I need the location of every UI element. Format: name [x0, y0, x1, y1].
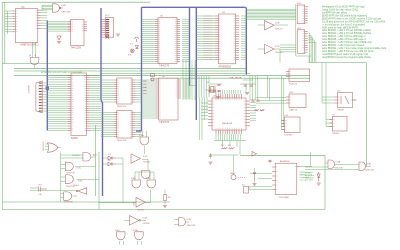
gate GC: [65, 175, 73, 183]
dome pair mid: [132, 180, 141, 188]
svg-text:74AC74: 74AC74: [289, 109, 298, 112]
wires gate G1 inputs: [42, 4, 52, 6]
wire second-left vertical: [4, 2, 6, 63]
ground right of X1: [116, 33, 120, 35]
X3 wires: [249, 187, 251, 189]
wires bus to U6 left: [142, 79, 156, 81]
wires U9 right to bus B2 right leg: [241, 15, 246, 17]
svg-text:74HCT08: 74HCT08: [365, 170, 374, 172]
svg-text:for ext bus: for ext bus: [305, 174, 314, 177]
connector pins X1 bottom marks: [106, 36, 110, 39]
svg-text:STK200: STK200: [29, 84, 31, 93]
gate GH1: [328, 160, 334, 168]
svg-text:input lines: input lines: [305, 177, 314, 180]
wires bus to U5 left: [142, 19, 156, 21]
resistors below CPU right: [255, 110, 260, 111]
ground below zener: [317, 182, 321, 184]
diode D2: [108, 162, 112, 166]
svg-text:74HC165: 74HC165: [117, 106, 127, 108]
bottom dome pair stubs: [119, 241, 121, 245]
svg-text:74HC04: 74HC04: [275, 29, 283, 31]
svg-text:5V1 prot: 5V1 prot: [305, 172, 313, 175]
diode D1: [108, 156, 112, 160]
resistor R_v: [164, 195, 167, 201]
gate G2 AND down: [30, 58, 39, 65]
R_v wires: [164, 190, 166, 195]
svg-text:TFR/WR: TFR/WR: [72, 155, 81, 157]
gate GB: [65, 162, 73, 170]
wires right rails to CN2: [280, 44, 296, 46]
svg-text:use caps 100n: use caps 100n: [300, 180, 314, 182]
wire rail y71: [14, 70, 246, 72]
svg-text:74HC4075: 74HC4075: [43, 141, 45, 151]
inverter near ADM: [252, 152, 257, 157]
CPU top stub wires: [215, 90, 217, 94]
svg-text:CH-DIMM: CH-DIMM: [279, 197, 289, 199]
svg-text:read BFRC9 resets the programm: read BFRC9 resets the programmable divid…: [322, 56, 371, 59]
IC_C: [117, 78, 132, 104]
verticals near x268: [267, 76, 269, 98]
wire bottom frame y209: [2, 209, 325, 211]
svg-text:74LS06: 74LS06: [143, 162, 151, 164]
svg-text:DS1307: DS1307: [284, 135, 293, 137]
IC4 big memory: [71, 73, 87, 135]
wire rail y63.5: [2, 63, 160, 65]
svg-text:ADM3202: ADM3202: [280, 160, 291, 163]
svg-text:74HCT08: 74HCT08: [64, 201, 73, 203]
svg-text:RELAY: RELAY: [338, 109, 345, 112]
wire vertical x240 down: [239, 141, 241, 155]
IC U9 AVR: [219, 14, 236, 64]
bus junction blob: [46, 87, 49, 90]
crystal Q2: [211, 87, 214, 93]
diode right wires: [116, 157, 123, 159]
wires into box C: [282, 120, 285, 122]
dome pair top feeders: [134, 172, 136, 180]
transistor Q1 area: [57, 36, 61, 40]
resistor R2 below CPU: [229, 148, 235, 149]
svg-text:IC3B: IC3B: [367, 164, 372, 166]
wires U1 left pins bundle: [5, 10, 13, 12]
wire gate G2 output: [34, 65, 36, 69]
inverter T1: [265, 21, 275, 31]
svg-text:74S04: 74S04: [73, 185, 80, 187]
green frame around connectors: [295, 4, 297, 56]
box2 below U18: [332, 117, 347, 132]
svg-text:IC3D: IC3D: [78, 181, 83, 183]
wire left rail x2: [1, 2, 3, 209]
wire CPU bottom collector: [214, 140, 246, 142]
wires bus B1 to IC4 left: [47, 74, 68, 76]
CN2 fanout verticals: [308, 32, 309, 34]
CPU bottom stub wires: [215, 134, 217, 141]
bus B2 right leg x246: [245, 7, 247, 74]
wires to inverter T1: [258, 24, 265, 26]
crystal area wires: [205, 89, 216, 91]
wires bus B2 to right connectors: [246, 8, 296, 10]
wires into box2: [326, 119, 332, 121]
cap above ADM: [268, 160, 271, 162]
wire rail y73.5: [100, 73, 250, 75]
wire gate G1 output: [59, 7, 63, 9]
wire rail y75.7: [14, 75, 310, 77]
ground mega crystal: [245, 92, 249, 94]
svg-text:LED1: LED1: [230, 173, 236, 175]
T_amp input wire: [99, 202, 136, 204]
svg-text:RELAY: RELAY: [332, 132, 339, 135]
svg-text:PC8574: PC8574: [289, 84, 298, 86]
wire U18 right pin: [353, 99, 358, 101]
svg-text:M48T08-100PC1: M48T08-100PC1: [21, 43, 40, 46]
GE gate wires: [174, 219, 179, 221]
wire vertical x325 to gates: [324, 155, 326, 209]
wire top rail y2: [2, 1, 150, 3]
caps at CPU top-left: [208, 90, 211, 92]
wires to inverter T2: [258, 48, 265, 50]
ground below cap CPU: [209, 161, 213, 163]
svg-text:74HCT08: 74HCT08: [66, 173, 75, 175]
wire vertical x95.5: [95, 125, 97, 196]
IC U5 latch: [158, 18, 177, 64]
wires OR3 gate: [45, 143, 48, 145]
inverter T_left: [78, 188, 87, 195]
relay U18: [338, 93, 353, 108]
svg-text:74HC573: 74HC573: [159, 65, 170, 68]
svg-text:IC5A: IC5A: [133, 229, 138, 232]
svg-text:IC7A: IC7A: [275, 21, 280, 24]
svg-text:74HC133: 74HC133: [61, 12, 71, 14]
svg-text:74HC04: 74HC04: [275, 52, 283, 54]
wires U1 right to bus B1: [41, 9, 48, 11]
wires CPU right pins: [250, 99, 256, 101]
STK200 pin stubs to bus: [43, 82, 48, 84]
IC3: [71, 19, 84, 45]
wires below resistors: [210, 154, 238, 156]
wires IC_C right to bus B2 left leg: [135, 79, 142, 81]
svg-text:ALE: ALE: [93, 154, 97, 157]
wires CPU to box B: [256, 97, 286, 99]
vertical feeders to box C: [281, 76, 283, 130]
ground crystal: [216, 96, 220, 98]
connector STK200 trapezoid: [36, 81, 42, 113]
box B: [289, 94, 306, 108]
svg-text:IC2E: IC2E: [143, 218, 148, 220]
wires U6 right: [183, 79, 191, 81]
svg-text:IC4B: IC4B: [131, 178, 136, 180]
crystal mega caps: [244, 84, 247, 86]
connector CN2: [297, 30, 305, 54]
connector X1: [105, 17, 113, 37]
verticals to CPU from rails: [198, 76, 200, 97]
inverter T_mid2: [130, 216, 140, 226]
verticals right of CPU to rails: [249, 76, 251, 100]
wires bus B6 to IC_D: [101, 112, 114, 114]
wires U5 right to buses B4 B5: [182, 19, 190, 21]
box C: [284, 117, 300, 133]
gate GH2: [359, 162, 365, 170]
bus B6 to diode wires: [103, 157, 109, 159]
T_mid output: [142, 158, 148, 160]
bus B6 vertical x101: [100, 8, 102, 100]
box A: [289, 69, 310, 82]
wire U1 left feeder vertical: [6, 11, 8, 34]
inverter T2: [265, 44, 275, 54]
solder jumper SJ2: [131, 49, 135, 53]
svg-text:74LS06: 74LS06: [143, 223, 151, 225]
wires bus B5 to U9 left: [196, 15, 215, 17]
gate GE: [179, 218, 186, 226]
cap C near ADM: [253, 172, 256, 174]
wire ADM3202 output: [297, 165, 312, 167]
gate cluster feeder vertical x60.6: [60, 153, 62, 202]
solder jumper SJ1 near U5: [151, 74, 155, 77]
wire rail y78.2: [150, 77, 310, 79]
svg-text:MEGA128: MEGA128: [222, 122, 233, 125]
svg-text:IC4D: IC4D: [115, 230, 120, 232]
ground below cap: [253, 183, 257, 185]
svg-text:IC6D: IC6D: [61, 5, 66, 7]
ground below R_v: [163, 205, 167, 207]
wires ADM3202 left: [250, 172, 272, 174]
svg-text:MOSI MISO SCK RST GND VCC LED: MOSI MISO SCK RST GND VCC LED PGM: [41, 72, 82, 74]
wires IC_D right to bus B2 left leg: [135, 112, 142, 114]
svg-text:AT90S8515: AT90S8515: [219, 66, 232, 69]
test point TP cap: [37, 187, 39, 192]
mid-left gate outputs: [91, 156, 96, 158]
gate GA: [83, 153, 91, 161]
bus B5 vertical x196.3: [195, 7, 197, 120]
gate GD: [64, 192, 72, 200]
svg-text:IC3B: IC3B: [187, 219, 192, 221]
bus B2 left leg x141.5: [141, 7, 143, 131]
verticals right of U6: [182, 60, 184, 100]
svg-text:IC4A: IC4A: [139, 134, 144, 137]
LED: [231, 175, 236, 180]
ground below Q1: [57, 41, 61, 43]
connector CN1 top right: [297, 5, 305, 24]
svg-text:74HC165: 74HC165: [117, 140, 127, 142]
wires ADM passive: [254, 168, 256, 172]
cap below CPU: [209, 154, 212, 156]
wires between B4 end and crystal: [190, 85, 197, 87]
svg-text:IC4C: IC4C: [146, 178, 151, 180]
wire right section vertical x366.5: [366, 63, 368, 166]
OR3 gate: [48, 143, 59, 153]
svg-text:74HCT08: 74HCT08: [187, 225, 196, 227]
bus B2 top horizontal: [142, 6, 246, 8]
gate G1 quad NAND: [52, 4, 59, 12]
svg-text:62256: 62256: [71, 137, 78, 140]
wire right section top y62.5: [309, 62, 367, 64]
caps C21 C22: [251, 99, 254, 101]
wires into mid-left gates: [61, 154, 83, 156]
gate G_mid1 wires: [142, 131, 144, 137]
diode vertical mid: [135, 46, 138, 49]
T_amp output wire: [146, 202, 151, 204]
wire bottom frame y202: [2, 201, 170, 203]
wires right gates GH1 GH2: [325, 162, 328, 164]
svg-text:IC2D: IC2D: [143, 156, 148, 158]
IC_D: [117, 111, 132, 139]
wires CPU left pins: [201, 102, 208, 104]
CPU U10 TQFP: [212, 98, 246, 130]
pin stubs right of bus B2 left leg: [143, 80, 146, 82]
T_mid2 wires: [124, 220, 130, 222]
verticals to resistors below CPU: [222, 141, 224, 148]
zener diode right: [317, 174, 320, 178]
feeder verticals to U18 and box2: [321, 63, 323, 104]
inverter T_amp: [136, 198, 146, 208]
wires into U18: [322, 96, 335, 98]
wires IC4 right to bus B6: [90, 74, 102, 76]
connector X3: [244, 187, 249, 194]
wire TP cap left: [30, 187, 38, 189]
bus B1 vertical x47: [46, 21, 48, 131]
gate G_mid1: [140, 137, 149, 145]
svg-text:74HC259: 74HC259: [71, 46, 82, 49]
bus B4 vertical x189.5: [189, 7, 191, 85]
resistor R1 below CPU: [222, 148, 228, 149]
CPU inner pin marks: [215, 99, 217, 101]
caps near crystal: [217, 84, 220, 86]
bus B6 lower vertical x102.5: [101, 100, 103, 196]
gate dome mid: [141, 171, 150, 179]
svg-text:IC7B: IC7B: [275, 46, 280, 48]
svg-text:74HC573: 74HC573: [159, 121, 170, 124]
test point semicircle: [135, 37, 139, 39]
wires U1 bottom to gate G2: [32, 42, 34, 57]
IC U1: [15, 9, 38, 43]
IC U6: [159, 78, 179, 120]
U9 pin name labels: [203, 15, 212, 17]
wires bus B1 to IC3: [47, 21, 67, 23]
svg-text:IC3C: IC3C: [77, 168, 82, 170]
verticals down left of CPU: [199, 97, 201, 140]
svg-text:74HCT08: 74HCT08: [334, 168, 343, 170]
svg-text:IC3A: IC3A: [336, 161, 341, 164]
wires bus B6 to IC_C: [101, 79, 114, 81]
wire rail y68.3: [14, 67, 246, 69]
inverter T_mid: [131, 154, 141, 164]
bottom dome pair: [117, 232, 126, 240]
IC ADM3202: [275, 163, 297, 194]
wire vertical x99: [98, 152, 100, 210]
svg-text:XTAL MEGA: XTAL MEGA: [229, 77, 242, 80]
svg-text:74LS06: 74LS06: [137, 210, 145, 212]
wire long horizontal y155.3: [240, 154, 325, 156]
bus B2 bottom stub: [136, 130, 142, 132]
